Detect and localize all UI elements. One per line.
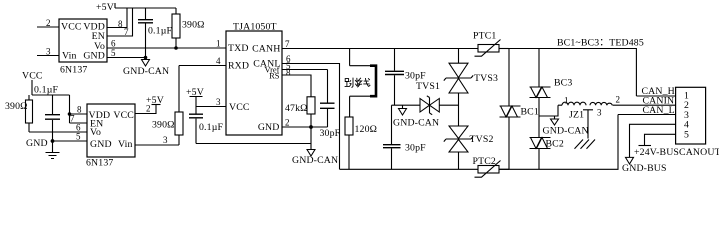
svg-text:120Ω: 120Ω xyxy=(355,124,378,135)
thermistor PTC1 xyxy=(473,31,509,57)
wire CANH to jumper xyxy=(350,49,371,66)
ground GND earth symbol xyxy=(26,138,60,159)
svg-text:TVS3: TVS3 xyxy=(474,73,498,84)
capacitor C6 30pF lower xyxy=(383,105,426,169)
resistor R3 390ohm series xyxy=(152,66,183,146)
wire TVS1 to column xyxy=(439,104,458,106)
optocoupler U2 6N137 body xyxy=(86,104,135,169)
U3 pin 6 CANL wire xyxy=(282,54,340,169)
svg-text:2: 2 xyxy=(146,104,151,114)
svg-text:4: 4 xyxy=(216,56,221,66)
svg-text:VCC: VCC xyxy=(61,22,82,33)
wire pin4 to GND-BUS xyxy=(630,124,676,157)
svg-text:BC1~BC3：TED485: BC1~BC3：TED485 xyxy=(557,38,644,49)
transceiver U3 TJA1050T body xyxy=(226,22,282,136)
wire CANIN run xyxy=(618,104,676,106)
protector BC2 xyxy=(530,116,564,169)
ground GND-CAN arrow 4 xyxy=(543,116,589,137)
SECTION: TJA1050T transceiver xyxy=(179,22,478,170)
svg-text:GND-CAN: GND-CAN xyxy=(123,66,169,77)
svg-text:RS: RS xyxy=(269,71,280,81)
svg-text:390Ω: 390Ω xyxy=(182,20,205,31)
junction R4/GND xyxy=(309,125,313,129)
U3 pin 2 GND wire xyxy=(282,118,328,128)
svg-text:GND-BUS: GND-BUS xyxy=(622,163,667,174)
svg-text:390Ω: 390Ω xyxy=(152,120,175,131)
svg-text:VCC: VCC xyxy=(22,71,43,82)
U1 pin 8 wire to +5V xyxy=(107,8,127,29)
ground GND-CAN arrow 1 xyxy=(123,60,169,78)
svg-text:GND-CAN: GND-CAN xyxy=(543,126,589,137)
svg-text:JZ1: JZ1 xyxy=(569,110,584,121)
svg-text:3: 3 xyxy=(163,135,168,145)
svg-text:5: 5 xyxy=(111,48,116,58)
svg-text:1: 1 xyxy=(216,39,221,49)
wire VCC rail xyxy=(32,94,70,96)
U2 pin 8 wire xyxy=(70,105,88,115)
connector J1 CANOUT body xyxy=(676,87,706,144)
svg-text:8: 8 xyxy=(286,68,291,78)
U3 pin 1 TXD xyxy=(216,39,221,49)
+5V power symbol xyxy=(96,2,115,13)
svg-text:BC1: BC1 xyxy=(521,107,539,118)
U2 pin 5 wire to ground xyxy=(53,132,88,142)
capacitor C3 0.1uF decoupling xyxy=(189,107,223,144)
svg-text:VCC: VCC xyxy=(229,102,250,113)
optocoupler U1 6N137 body xyxy=(59,19,107,76)
resistor R1 390ohm pull-up xyxy=(172,8,205,48)
capacitor C4 30pF on Vref xyxy=(320,70,341,140)
resistor R5 120ohm termination xyxy=(345,117,377,169)
svg-text:0.1µF: 0.1µF xyxy=(148,26,172,37)
svg-text:2: 2 xyxy=(616,95,621,105)
svg-text:8: 8 xyxy=(77,105,82,115)
U3 pin 4 RXD wire xyxy=(179,56,226,66)
svg-text:5: 5 xyxy=(76,132,81,142)
svg-text:Vin: Vin xyxy=(62,51,77,62)
U2 pin 7 wire to VCC xyxy=(70,95,88,124)
ground chassis symbol xyxy=(575,140,596,149)
SECTION: lower-left optocoupler U2 xyxy=(5,66,183,169)
svg-text:30pF: 30pF xyxy=(320,128,341,139)
svg-text:GND: GND xyxy=(90,139,112,150)
svg-text:7: 7 xyxy=(285,39,290,49)
U3 pin 8 RS wire xyxy=(282,68,311,97)
svg-text:7: 7 xyxy=(124,27,129,37)
U1 pin 6 wire to TXD xyxy=(107,39,226,49)
svg-text:TVS1: TVS1 xyxy=(416,81,440,92)
svg-text:VCC: VCC xyxy=(113,110,134,121)
U3 pin 7 CANH wire xyxy=(282,39,478,49)
svg-text:CANH: CANH xyxy=(252,44,280,55)
TVS3 suppressor vertical xyxy=(444,49,498,94)
svg-text:GND: GND xyxy=(26,138,48,149)
jumper JP1 header bracket xyxy=(370,66,376,97)
ground GND-CAN arrow 2 xyxy=(292,150,338,167)
U2 pin 6 output wire xyxy=(29,123,87,133)
svg-text:390Ω: 390Ω xyxy=(5,101,28,112)
junction R1/TXD xyxy=(174,46,178,50)
svg-text:BC2: BC2 xyxy=(546,139,564,150)
TVS2 suppressor vertical xyxy=(444,93,494,169)
+5V power symbol 2 xyxy=(146,95,164,106)
junction C2/pin5 xyxy=(51,139,55,143)
svg-text:GND: GND xyxy=(258,122,280,133)
wire CAN_L to pin3 xyxy=(618,114,676,116)
capacitor C1 0.1uF xyxy=(138,8,172,58)
U3 pin 5 Vref wire xyxy=(282,61,328,71)
thermistor PTC2 xyxy=(473,156,510,177)
SECTION: middle termination and TVS xyxy=(340,31,510,178)
svg-text:TJA1050T: TJA1050T xyxy=(233,22,277,33)
protector BC1 xyxy=(500,49,539,170)
svg-text:0.1µF: 0.1µF xyxy=(34,85,58,96)
svg-text:CAN_L: CAN_L xyxy=(643,105,675,116)
svg-text:+5V: +5V xyxy=(96,2,114,13)
SECTION: right protection and connector xyxy=(499,38,719,175)
svg-text:47kΩ: 47kΩ xyxy=(285,103,308,114)
svg-text:GND-CAN: GND-CAN xyxy=(393,118,439,129)
U2 pin 3 wire from R3 xyxy=(135,135,179,145)
wire ground node row xyxy=(392,104,421,106)
wire BC3 to JZ1 node xyxy=(539,98,558,117)
wire CANL bottom bus xyxy=(340,168,479,170)
inductor JZ1 common-mode choke xyxy=(558,95,620,139)
svg-text:Vo: Vo xyxy=(90,127,101,138)
U2 pin 2 wire to +5V xyxy=(135,104,156,114)
wire pin5 to +24V xyxy=(645,134,676,145)
+5V power symbol 3 xyxy=(186,87,204,107)
svg-text:GND-CAN: GND-CAN xyxy=(292,155,338,166)
svg-text:PTC2: PTC2 xyxy=(473,156,496,167)
resistor R2 390ohm xyxy=(5,95,33,132)
ground GND-CAN arrow 3 xyxy=(393,105,439,128)
wire C3 ground run xyxy=(196,143,311,145)
U3 pin 3 VCC wire xyxy=(196,97,226,107)
wire GND drop xyxy=(310,127,312,150)
svg-text:6N137: 6N137 xyxy=(86,158,113,169)
svg-text:PTC1: PTC1 xyxy=(473,31,496,42)
svg-text:0.1µF: 0.1µF xyxy=(199,122,223,133)
U1 pin 5 wire xyxy=(107,48,146,58)
U1 pin 7 wire to +5V xyxy=(107,8,133,37)
resistor R4 47k xyxy=(285,97,315,127)
svg-text:2: 2 xyxy=(46,18,51,28)
svg-text:5: 5 xyxy=(684,130,689,141)
svg-text:TVS2: TVS2 xyxy=(470,134,494,145)
wire jumper to R5 xyxy=(350,96,371,117)
svg-text:GND: GND xyxy=(83,51,105,62)
svg-text:3: 3 xyxy=(216,97,221,107)
svg-text:BC3: BC3 xyxy=(554,78,572,89)
svg-text:8: 8 xyxy=(118,19,123,29)
junction C1/pin5 xyxy=(144,56,148,60)
svg-text:+24V-BUSCANOUT: +24V-BUSCANOUT xyxy=(634,147,719,158)
protector BC3 xyxy=(530,49,573,98)
wire CAN_H to pin1 xyxy=(636,95,675,97)
U1 pin 2 lead xyxy=(37,18,59,28)
svg-text:2: 2 xyxy=(285,118,290,128)
wire CANH protected run xyxy=(499,49,636,97)
svg-text:6N137: 6N137 xyxy=(60,65,87,76)
TVS1 bidirectional suppressor xyxy=(416,81,440,115)
svg-text:3: 3 xyxy=(46,47,51,57)
svg-text:TXD: TXD xyxy=(228,43,249,54)
SECTION: top-left optocoupler U1 xyxy=(37,2,226,77)
svg-text:RXD: RXD xyxy=(228,61,249,72)
+5V rail wire xyxy=(115,7,176,9)
svg-text:30pF: 30pF xyxy=(405,143,426,154)
capacitor C5 30pF upper xyxy=(385,49,426,106)
power +24V-BUS bar xyxy=(639,145,652,147)
node VCC label xyxy=(22,71,43,96)
svg-text:Vin: Vin xyxy=(118,139,133,150)
ground GND-BUS arrow xyxy=(622,157,667,174)
capacitor C2 0.1uF xyxy=(34,85,60,153)
wire CANL protected run xyxy=(499,115,618,170)
junction pin8/vertical xyxy=(68,112,72,116)
svg-text:6: 6 xyxy=(111,39,116,49)
svg-text:3: 3 xyxy=(597,108,602,118)
svg-text:30pF: 30pF xyxy=(405,71,426,82)
U1 pin 3 lead xyxy=(37,47,59,57)
label jumper (tiao xian) xyxy=(345,78,371,88)
